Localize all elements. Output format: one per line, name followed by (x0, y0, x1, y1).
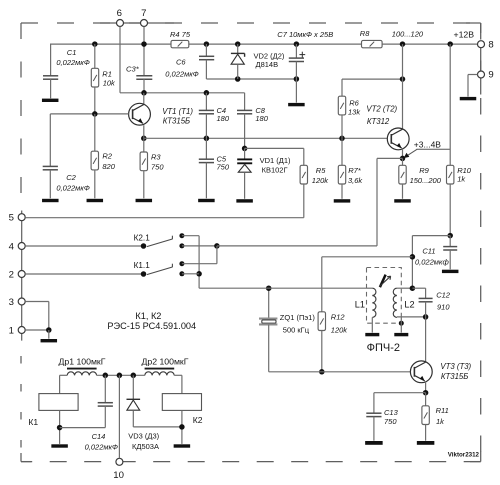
svg-text:К1, К2: К1, К2 (135, 311, 161, 321)
svg-text:VT2 (T2): VT2 (T2) (366, 104, 397, 113)
svg-text:180: 180 (217, 114, 230, 123)
svg-text:R11: R11 (436, 406, 449, 415)
svg-text:+12В: +12В (454, 30, 475, 40)
svg-text:120k: 120k (331, 326, 349, 335)
svg-text:К2: К2 (193, 415, 203, 425)
svg-text:5: 5 (9, 213, 14, 224)
svg-text:+3...4В: +3...4В (414, 140, 442, 150)
svg-text:0,022мкФ: 0,022мкФ (56, 183, 89, 192)
svg-text:R7*: R7* (348, 166, 362, 175)
svg-text:750: 750 (217, 163, 230, 172)
svg-text:750: 750 (151, 163, 164, 172)
svg-text:7: 7 (141, 8, 146, 19)
svg-text:4: 4 (9, 242, 15, 253)
svg-text:1: 1 (9, 326, 14, 337)
svg-text:КД503А: КД503А (132, 442, 159, 451)
svg-text:C7 10мкФ x 25В: C7 10мкФ x 25В (277, 30, 333, 39)
svg-text:750: 750 (384, 417, 397, 426)
svg-text:VT3 (Т3): VT3 (Т3) (440, 362, 471, 371)
svg-text:13k: 13k (348, 107, 361, 116)
svg-text:C6: C6 (176, 58, 186, 67)
svg-text:0,022мкФ: 0,022мкФ (85, 442, 118, 451)
svg-text:C14: C14 (92, 432, 106, 441)
svg-text:C13: C13 (384, 408, 399, 417)
svg-text:C3*: C3* (126, 65, 140, 74)
svg-text:150...200: 150...200 (410, 176, 442, 185)
svg-text:R9: R9 (419, 166, 429, 175)
svg-text:R6: R6 (349, 99, 359, 108)
svg-text:Viktor2312: Viktor2312 (448, 451, 480, 458)
svg-text:C11: C11 (422, 246, 435, 255)
svg-text:КТ315Б: КТ315Б (441, 372, 468, 381)
svg-text:ZQ1 (Пэ1): ZQ1 (Пэ1) (280, 313, 316, 322)
svg-text:К2.1: К2.1 (134, 234, 151, 243)
svg-text:L1: L1 (355, 300, 365, 310)
svg-text:6: 6 (117, 8, 122, 19)
svg-text:0,022мкФ: 0,022мкФ (56, 58, 89, 67)
svg-text:C12: C12 (436, 291, 451, 300)
svg-text:C2: C2 (66, 173, 76, 182)
svg-text:L2: L2 (404, 300, 414, 310)
svg-text:120k: 120k (312, 176, 330, 185)
svg-text:0,022мкФ: 0,022мкФ (165, 69, 198, 78)
svg-text:Д814В: Д814В (256, 60, 279, 69)
svg-text:VD3 (Д3): VD3 (Д3) (128, 432, 159, 441)
svg-text:3,6k: 3,6k (348, 176, 363, 185)
svg-text:C1: C1 (67, 48, 77, 57)
svg-text:9: 9 (488, 70, 493, 81)
svg-text:1k: 1k (436, 417, 445, 426)
svg-text:Др2 100мкГ: Др2 100мкГ (142, 357, 189, 367)
svg-text:1k: 1k (457, 175, 466, 184)
svg-text:3: 3 (9, 297, 14, 308)
svg-text:100...120: 100...120 (392, 30, 424, 39)
svg-text:R2: R2 (102, 151, 112, 160)
svg-text:К1.1: К1.1 (134, 261, 151, 270)
svg-text:180: 180 (255, 114, 268, 123)
svg-text:ФПЧ-2: ФПЧ-2 (367, 342, 400, 354)
svg-text:R1: R1 (102, 70, 112, 79)
svg-text:500 кГц: 500 кГц (283, 326, 310, 335)
svg-text:R8: R8 (360, 29, 370, 38)
svg-text:0,022мкф: 0,022мкф (415, 258, 449, 267)
svg-text:КТ315Б: КТ315Б (163, 117, 190, 126)
svg-text:2: 2 (9, 270, 14, 281)
svg-text:8: 8 (488, 39, 493, 50)
svg-text:R4 75: R4 75 (170, 30, 191, 39)
svg-text:R5: R5 (316, 166, 326, 175)
svg-text:R3: R3 (151, 152, 161, 161)
svg-text:R12: R12 (331, 313, 346, 322)
svg-text:910: 910 (437, 303, 450, 312)
svg-text:К1: К1 (28, 417, 38, 427)
svg-text:РЭС-15 РС4.591.004: РЭС-15 РС4.591.004 (107, 321, 196, 331)
svg-text:Др1 100мкГ: Др1 100мкГ (59, 357, 106, 367)
svg-text:820: 820 (102, 162, 115, 171)
svg-text:10: 10 (113, 470, 124, 481)
svg-text:10k: 10k (103, 79, 116, 88)
svg-text:VD1 (Д1): VD1 (Д1) (260, 156, 291, 165)
svg-text:КТ312: КТ312 (367, 117, 390, 126)
svg-text:КВ102Г: КВ102Г (262, 165, 288, 174)
svg-text:VT1 (T1): VT1 (T1) (162, 107, 193, 116)
